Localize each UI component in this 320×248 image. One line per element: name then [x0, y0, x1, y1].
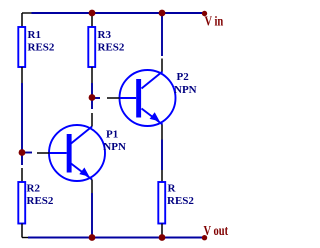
- junction node top P2 collector: [159, 10, 166, 17]
- terminal V out dot: [202, 235, 207, 240]
- wire bottom rail black stub: [22, 237, 28, 239]
- svg-text:NPN: NPN: [174, 84, 197, 96]
- svg-text:RES2: RES2: [98, 42, 125, 54]
- svg-text:R: R: [168, 183, 177, 195]
- resistor R3: [88, 13, 125, 83]
- svg-text:RES2: RES2: [28, 42, 55, 54]
- wire node A stub right to P1 base: [22, 152, 32, 154]
- wire R3 to node B: [91, 83, 93, 98]
- svg-text:P1: P1: [106, 129, 118, 141]
- svg-text:RES2: RES2: [27, 195, 54, 207]
- terminal V in dot: [202, 11, 207, 16]
- svg-text:R1: R1: [28, 29, 41, 41]
- wire P1 emitter to bottom rail: [91, 193, 93, 238]
- junction node bottom R: [159, 234, 166, 241]
- svg-text:RES2: RES2: [167, 195, 194, 207]
- svg-text:R3: R3: [98, 29, 112, 41]
- wire node B down to P1 collector: [91, 98, 93, 110]
- svg-text:NPN: NPN: [103, 141, 126, 153]
- wire P2 emitter to R: [161, 140, 163, 171]
- transistor P1: [37, 113, 126, 193]
- resistor R1: [18, 13, 55, 83]
- junction node B: [89, 94, 96, 101]
- svg-text:R2: R2: [27, 183, 41, 195]
- wire R1 to node A: [21, 83, 23, 153]
- junction node A: [19, 149, 26, 156]
- wire top rail: [32, 12, 205, 14]
- svg-text:V in: V in: [205, 13, 224, 29]
- transistor P2: [107, 59, 197, 140]
- junction node bottom P1 emitter: [89, 234, 96, 241]
- wire node A down to R2: [21, 153, 23, 166]
- wire bottom rail: [28, 237, 204, 239]
- resistor R: [158, 170, 194, 238]
- resistor R2: [18, 168, 54, 238]
- svg-text:V out: V out: [204, 223, 229, 239]
- wire node B stub right to P2 base: [92, 97, 100, 99]
- svg-text:P2: P2: [177, 71, 190, 83]
- wire top rail to P2 collector: [161, 13, 163, 56]
- wire top rail black stub: [22, 12, 32, 14]
- junction node top R3: [89, 10, 96, 17]
